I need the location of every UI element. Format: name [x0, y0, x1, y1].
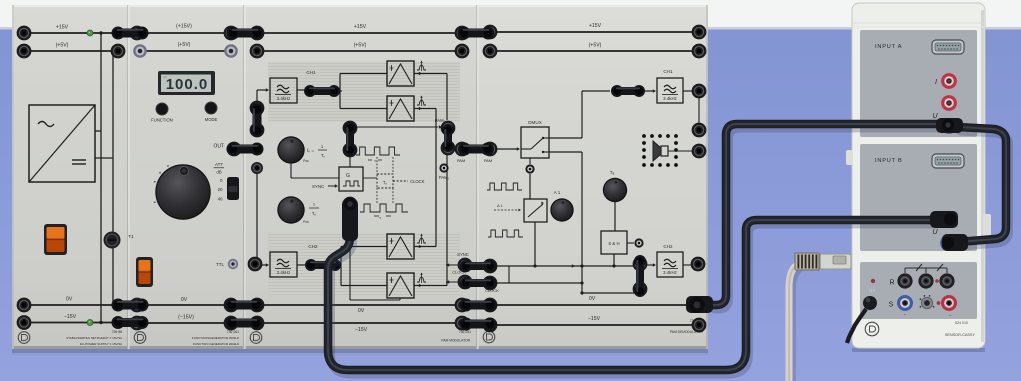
svg-text:3.4kHz: 3.4kHz: [663, 270, 677, 275]
svg-text:S: S: [889, 302, 894, 309]
svg-text:524 010: 524 010: [955, 321, 968, 325]
svg-text:fₚ =: fₚ =: [307, 148, 314, 153]
svg-text:0V: 0V: [358, 308, 365, 314]
svg-text:FUNCTION: FUNCTION: [151, 118, 173, 123]
svg-text:R: R: [889, 280, 894, 287]
svg-text:3.4kHz: 3.4kHz: [663, 96, 677, 101]
svg-text:−15V: −15V: [64, 314, 77, 320]
svg-text:Tₐ: Tₐ: [610, 170, 615, 175]
svg-text:OUT: OUT: [213, 144, 224, 150]
svg-text:DC-POWER SUPPLY ± 15V/3A: DC-POWER SUPPLY ± 15V/3A: [80, 342, 122, 346]
svg-text:726 86: 726 86: [112, 330, 122, 334]
svg-text:Tₚ: Tₚ: [321, 153, 326, 158]
svg-text:3.4kHz: 3.4kHz: [277, 270, 291, 275]
svg-text:SYNC: SYNC: [312, 184, 324, 189]
svg-text:Pos: Pos: [303, 220, 309, 224]
svg-text:Tₚ: Tₚ: [312, 211, 317, 216]
svg-text:MODE: MODE: [205, 117, 218, 122]
svg-text:PAM: PAM: [484, 158, 492, 163]
svg-text:20: 20: [218, 187, 223, 192]
svg-text:(+5V): (+5V): [589, 43, 602, 49]
svg-text:CH1: CH1: [306, 70, 316, 75]
svg-text:(+5V): (+5V): [178, 42, 191, 48]
svg-text:40: 40: [218, 197, 223, 202]
svg-text:CH2: CH2: [308, 244, 318, 249]
svg-text:T1: T1: [128, 234, 134, 240]
svg-text:PAM₁: PAM₁: [439, 175, 450, 180]
svg-text:(+15V): (+15V): [176, 24, 192, 30]
svg-text:FUNKTIONSGENERATOR 200kHz: FUNKTIONSGENERATOR 200kHz: [192, 336, 240, 340]
svg-text:Pos: Pos: [303, 159, 309, 163]
svg-text:CH1: CH1: [663, 69, 673, 74]
svg-text:I: I: [935, 79, 937, 86]
svg-text:τ: τ: [313, 202, 315, 207]
svg-text:→: →: [948, 312, 953, 317]
svg-text:dB: dB: [216, 170, 221, 175]
svg-text:INPUT A: INPUT A: [875, 44, 902, 50]
svg-text:G: G: [346, 173, 350, 179]
svg-text:+15V: +15V: [589, 23, 602, 29]
svg-text:(+5V): (+5V): [56, 43, 69, 49]
svg-text:INPUT B: INPUT B: [875, 158, 903, 164]
svg-text:100.0: 100.0: [166, 76, 209, 93]
svg-text:+15V: +15V: [354, 24, 367, 30]
svg-text:+15V: +15V: [56, 25, 69, 31]
svg-text:S & H: S & H: [608, 241, 619, 246]
svg-text:−: −: [904, 312, 907, 317]
svg-text:ATT: ATT: [215, 162, 223, 167]
svg-text:0V: 0V: [589, 296, 596, 302]
svg-text:−15V: −15V: [355, 327, 368, 333]
svg-text:736 051: 736 051: [459, 330, 471, 334]
svg-text:A 1: A 1: [554, 190, 561, 195]
svg-text:0V: 0V: [181, 297, 188, 303]
svg-text:SENSOR-CASSY: SENSOR-CASSY: [945, 333, 976, 337]
svg-text:Tₚ: Tₚ: [383, 180, 388, 185]
svg-text:12 V: 12 V: [869, 289, 875, 293]
svg-text:PAM: PAM: [457, 158, 465, 163]
svg-text:(−15V): (−15V): [178, 315, 194, 321]
svg-text:736 061: 736 061: [227, 330, 239, 334]
svg-text:TTL: TTL: [216, 262, 224, 267]
svg-text:FUNCTION GENERATOR 200kHz: FUNCTION GENERATOR 200kHz: [193, 342, 240, 346]
svg-text:SYNC: SYNC: [457, 252, 469, 257]
svg-text:0V: 0V: [66, 297, 73, 303]
svg-text:−15V: −15V: [588, 316, 601, 322]
svg-text:CH2: CH2: [663, 244, 673, 249]
svg-text:3.4kHz: 3.4kHz: [277, 96, 291, 101]
svg-text:(+5V): (+5V): [354, 43, 367, 49]
svg-text:DMUX: DMUX: [528, 120, 542, 125]
svg-text:A 1: A 1: [497, 203, 504, 208]
svg-text:CLOCK: CLOCK: [410, 179, 425, 184]
svg-text:PAM MODULATOR: PAM MODULATOR: [441, 339, 470, 343]
svg-text:STABILISIERTES NETZGERÄT ± 15V: STABILISIERTES NETZGERÄT ± 15V/3A: [66, 336, 122, 340]
